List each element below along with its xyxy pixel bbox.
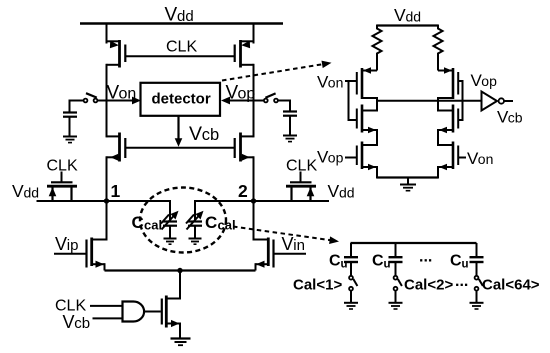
svg-text:CLK: CLK	[166, 38, 197, 55]
detector block	[141, 83, 221, 116]
AND gate	[123, 302, 145, 322]
capacitor Cu 1 branch	[344, 243, 358, 276]
svg-text:dd: dd	[406, 9, 422, 25]
wire Vdd top rail	[80, 22, 283, 24]
transistor replica left T3	[345, 142, 377, 171]
capacitor right offset-store	[283, 112, 297, 136]
label Vdd right	[328, 181, 355, 201]
wire node 1 to Vip drain	[106, 201, 108, 241]
svg-text:CLK: CLK	[286, 158, 317, 175]
svg-text:cal: cal	[144, 218, 162, 233]
wire Von with arrow into detector	[98, 97, 142, 105]
label Von replica left	[317, 73, 343, 92]
svg-text:Cal<1>: Cal<1>	[293, 277, 342, 294]
node Von label	[107, 83, 137, 104]
switch right (offset cancel)	[264, 93, 278, 102]
svg-text:dd: dd	[24, 185, 40, 201]
transistor NMOS input Vip	[54, 238, 107, 271]
resistor right load	[434, 25, 443, 71]
wire cap bank top rail	[351, 242, 477, 244]
label Cu 3	[450, 253, 469, 271]
ground right capacitor	[283, 136, 297, 142]
svg-text:on: on	[478, 151, 494, 167]
ground Ccal right	[189, 239, 202, 245]
label Ccal left	[132, 213, 163, 233]
svg-text:cb: cb	[508, 110, 523, 126]
label Cal1	[293, 277, 342, 294]
dashed ellipse around Ccal pair	[140, 188, 226, 253]
svg-text:op: op	[328, 150, 344, 166]
wire node 2 to Vdd-right and Ccal tap	[195, 201, 329, 221]
node Vop label	[226, 83, 256, 104]
transistor replica left T1	[357, 67, 377, 99]
resistor left load	[373, 25, 382, 71]
wire Vcb output of detector with arrow	[175, 116, 183, 147]
wire Vcb gate line between mid NMOS pair	[125, 147, 234, 149]
wire AND inputs	[90, 306, 123, 319]
wire common source rail	[105, 269, 256, 271]
wire left branch Von vertical	[106, 64, 108, 138]
svg-text:V: V	[394, 5, 406, 25]
transistor NMOS tail	[162, 271, 180, 339]
label Von replica right	[467, 149, 493, 168]
svg-text:dd: dd	[339, 185, 355, 201]
transistor replica right T2	[438, 105, 458, 134]
ground left capacitor	[63, 137, 77, 143]
label Vcb replica output	[497, 108, 523, 127]
wire replica left branch verticals	[376, 97, 378, 179]
switch Cal2	[394, 276, 402, 291]
label Vop replica right	[471, 71, 498, 90]
inverter buffer Vcb	[482, 92, 514, 111]
label Vip	[55, 234, 78, 254]
wire replica left gate tie (Von)	[345, 80, 357, 121]
wire switch right to capacitor	[278, 101, 290, 112]
ground Cu 2	[389, 291, 403, 309]
label CLK top	[166, 38, 197, 55]
capacitor Cu 2 branch	[389, 243, 403, 276]
transistor replica right T3	[438, 142, 466, 171]
svg-text:u: u	[462, 259, 469, 271]
label CLK left pass	[47, 158, 78, 175]
svg-text:Cal<64>: Cal<64>	[482, 277, 540, 294]
wire replica right branch verticals	[437, 97, 439, 179]
svg-text:C: C	[450, 253, 462, 270]
label CLK right pass	[286, 158, 317, 175]
ground tail	[171, 339, 191, 346]
wire node 2 to Vin drain	[253, 201, 255, 241]
wire right branch to node 2	[253, 156, 255, 201]
wire Vdd-left to node 1 to Ccal tap	[37, 201, 171, 221]
wire Vdd replica rail	[377, 24, 438, 26]
svg-text:V: V	[63, 312, 75, 332]
capacitor Ccal right (variable)	[186, 211, 204, 239]
label Cal64	[482, 277, 540, 294]
node junction 1	[104, 198, 109, 203]
switch left (offset cancel)	[84, 93, 98, 102]
svg-text:C: C	[329, 253, 341, 270]
wire mid line to inverter	[377, 100, 482, 102]
wire CLK gate line between top PMOS pair	[125, 55, 234, 57]
label Cu 1	[329, 253, 348, 271]
ground Ccal left	[164, 239, 177, 245]
wire Vop with arrow into detector	[221, 97, 264, 105]
svg-text:cb: cb	[74, 315, 90, 332]
transistor replica left T2	[357, 105, 377, 134]
label Vin	[282, 234, 305, 254]
wire replica right gate tie (Vop)	[458, 80, 462, 121]
wire right branch from Vdd rail	[253, 24, 255, 44]
svg-text:2: 2	[238, 181, 248, 201]
label Ccal right	[205, 213, 236, 233]
node junction 2	[251, 198, 256, 203]
dashed arrow ellipse to cap bank	[233, 227, 339, 245]
ground replica	[400, 178, 416, 191]
capacitor Ccal left (variable)	[161, 211, 179, 239]
svg-text:detector: detector	[152, 91, 211, 108]
switch Cal64	[475, 276, 483, 291]
label Vcb (detector output)	[189, 123, 219, 145]
capacitor left offset-store	[63, 113, 77, 137]
svg-text:ip: ip	[67, 237, 79, 254]
transistor pass left (Vdd precharge)	[47, 172, 77, 201]
svg-text:C: C	[372, 253, 384, 270]
svg-text:V: V	[12, 181, 24, 201]
svg-text:in: in	[293, 237, 305, 254]
label node 1 (red)	[111, 181, 121, 201]
label Cu 2	[372, 253, 391, 271]
node junction tail	[177, 268, 182, 273]
wire left branch to node 1	[106, 156, 108, 201]
transistor replica right T1	[438, 67, 458, 99]
dashed arrow detector to replica	[222, 61, 332, 81]
label Cal2	[404, 277, 453, 294]
capacitor Cu 3 branch	[470, 243, 484, 276]
wire AND output to tail gate	[144, 311, 161, 313]
transistor PMOS left clock (top left)	[107, 40, 126, 68]
label Vcb tail	[63, 312, 91, 332]
svg-text:cb: cb	[202, 126, 219, 144]
ground Cu 1	[344, 291, 358, 309]
svg-text:u: u	[384, 259, 391, 271]
wire replica bottom rail	[377, 176, 438, 178]
label CLK tail	[55, 298, 86, 315]
svg-text:u: u	[341, 259, 348, 271]
label node 2 (red)	[238, 181, 248, 201]
svg-text:on: on	[328, 75, 344, 91]
transistor PMOS right clock (top right)	[235, 40, 254, 68]
label Vop replica left	[317, 148, 344, 167]
svg-text:V: V	[328, 181, 340, 201]
label dots bottom (cap bank)	[455, 273, 468, 290]
transistor NMOS input Vin	[254, 238, 307, 271]
label dots top (cap bank)	[419, 249, 432, 266]
svg-text:...: ...	[455, 273, 468, 290]
label Vdd replica	[394, 5, 421, 25]
wire switch left to capacitor	[70, 101, 84, 113]
svg-text:1: 1	[111, 181, 121, 201]
svg-text:...: ...	[419, 249, 432, 266]
switch Cal1	[349, 276, 357, 291]
node Vdd top label	[165, 5, 194, 26]
transistor NMOS right regen	[235, 133, 254, 162]
transistor pass right (Vdd precharge)	[286, 172, 316, 201]
ground Cu 3	[470, 291, 484, 309]
svg-text:V: V	[55, 234, 67, 254]
wire left branch from Vdd rail	[106, 24, 108, 44]
label Vdd left	[12, 181, 39, 201]
svg-text:C: C	[205, 213, 217, 232]
transistor NMOS left regen	[107, 133, 126, 162]
svg-text:Cal<2>: Cal<2>	[404, 277, 453, 294]
wire right branch Vop vertical	[253, 64, 255, 138]
svg-text:op: op	[481, 73, 497, 89]
svg-text:V: V	[282, 234, 294, 254]
svg-text:V: V	[189, 123, 202, 145]
